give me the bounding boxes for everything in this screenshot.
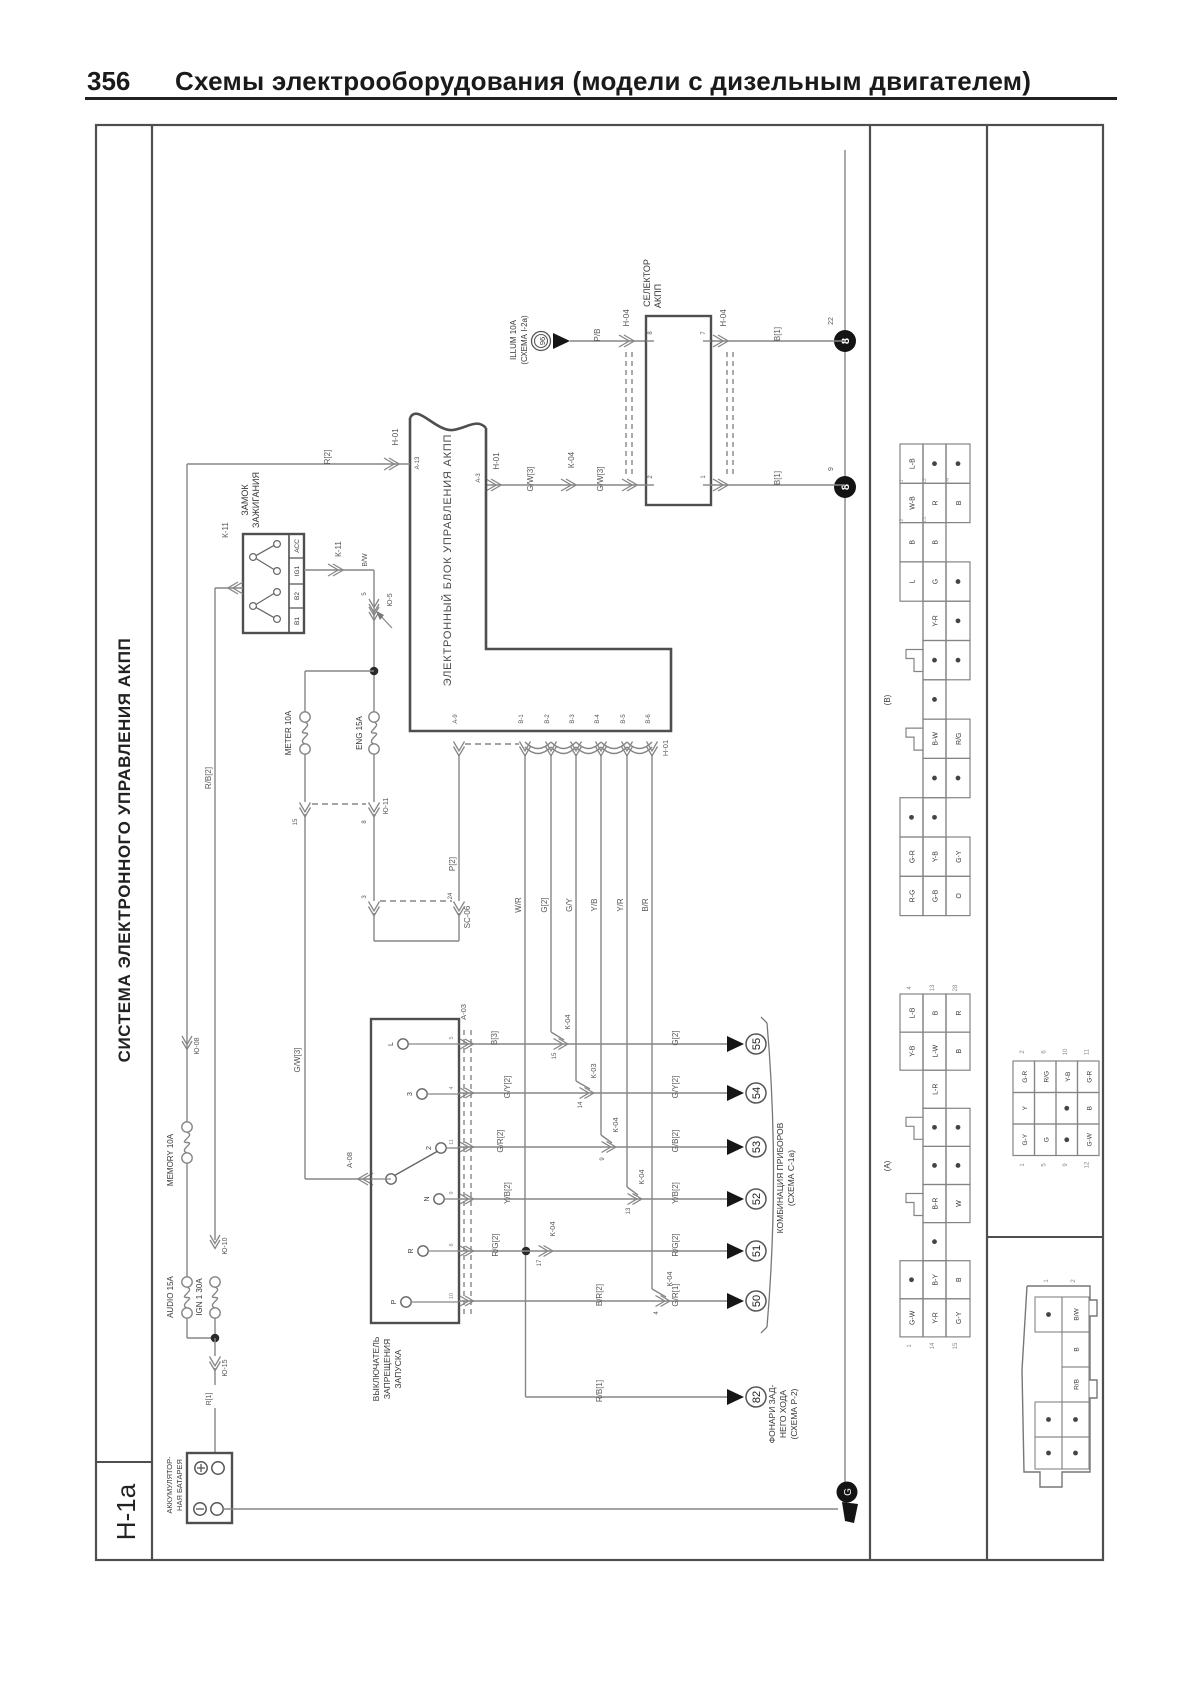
svg-text:G-Y: G-Y	[956, 1311, 963, 1324]
svg-text:ENG 15А: ENG 15А	[355, 715, 364, 749]
svg-text:G/Y[2]: G/Y[2]	[671, 1076, 680, 1099]
svg-text:G-Y: G-Y	[1022, 1133, 1029, 1145]
svg-text:(СХЕМА С-1а): (СХЕМА С-1а)	[786, 1150, 796, 1206]
svg-text:А-03: А-03	[459, 1004, 468, 1020]
svg-text:Н-01: Н-01	[661, 740, 670, 756]
svg-text:MEMORY 10А: MEMORY 10А	[166, 1133, 175, 1186]
svg-text:К-04: К-04	[611, 1117, 620, 1132]
svg-text:В: В	[933, 1010, 940, 1015]
svg-text:G[2]: G[2]	[540, 897, 549, 912]
svg-text:К-11: К-11	[334, 541, 343, 557]
svg-text:R/G[2]: R/G[2]	[491, 1233, 500, 1256]
svg-text:Н-04: Н-04	[622, 309, 631, 327]
svg-text:ВЫКЛЮЧАТЕЛЬ: ВЫКЛЮЧАТЕЛЬ	[371, 1336, 381, 1401]
svg-text:R[2]: R[2]	[323, 450, 332, 465]
svg-text:ФОНАРИ ЗАД-: ФОНАРИ ЗАД-	[767, 1384, 777, 1443]
svg-text:G/R[1]: G/R[1]	[671, 1283, 680, 1306]
svg-text:НЕГО ХОДА: НЕГО ХОДА	[778, 1390, 788, 1438]
svg-text:G-W: G-W	[1086, 1132, 1093, 1146]
svg-text:53: 53	[751, 1141, 763, 1153]
svg-text:15: 15	[552, 1052, 558, 1059]
svg-text:Схемы электрооборудования (мод: Схемы электрооборудования (модели с дизе…	[175, 66, 1031, 96]
svg-text:К-11: К-11	[221, 522, 230, 538]
svg-text:1: 1	[899, 479, 905, 482]
svg-text:Ю-10: Ю-10	[222, 1237, 229, 1254]
svg-text:В-5: В-5	[621, 714, 627, 724]
svg-text:В: В	[910, 540, 917, 545]
svg-text:L-W: L-W	[933, 1044, 940, 1057]
svg-text:В-1: В-1	[519, 714, 525, 724]
svg-text:К-04: К-04	[567, 451, 576, 468]
svg-text:IG1: IG1	[294, 565, 301, 576]
svg-text:В: В	[1086, 1106, 1093, 1110]
svg-text:В-6: В-6	[646, 714, 652, 724]
svg-text:L: L	[388, 1042, 395, 1046]
svg-text:METER 10А: METER 10А	[284, 710, 293, 755]
svg-text:N: N	[424, 1196, 431, 1201]
svg-text:Y: Y	[1022, 1105, 1029, 1110]
svg-text:2: 2	[899, 518, 905, 521]
svg-text:13: 13	[626, 1207, 632, 1214]
svg-text:А-9: А-9	[453, 714, 459, 724]
svg-text:2: 2	[426, 1146, 433, 1150]
svg-text:4: 4	[449, 1086, 455, 1089]
svg-text:В[3]: В[3]	[490, 1031, 499, 1045]
svg-text:G/R[2]: G/R[2]	[496, 1129, 505, 1152]
svg-text:СИСТЕМА ЭЛЕКТРОННОГО УПРАВЛЕНИ: СИСТЕМА ЭЛЕКТРОННОГО УПРАВЛЕНИЯ АКПП	[115, 638, 134, 1063]
svg-text:11: 11	[1085, 1048, 1091, 1055]
svg-text:Y-В: Y-В	[1065, 1072, 1072, 1082]
svg-text:К-04: К-04	[637, 1169, 646, 1184]
svg-text:Y/R: Y/R	[616, 898, 625, 912]
svg-text:96: 96	[538, 337, 547, 345]
svg-text:B/W: B/W	[1074, 1307, 1081, 1320]
svg-text:В/R[2]: В/R[2]	[595, 1284, 604, 1306]
svg-text:ЗАПУСКА: ЗАПУСКА	[393, 1349, 403, 1388]
svg-text:В2: В2	[294, 592, 301, 600]
svg-text:Y-В: Y-В	[910, 1045, 917, 1056]
svg-text:Y/В[2]: Y/В[2]	[503, 1182, 512, 1204]
svg-text:G-R: G-R	[1086, 1070, 1093, 1082]
svg-text:L-B: L-B	[910, 458, 917, 469]
svg-text:50: 50	[751, 1295, 763, 1307]
svg-text:В: В	[956, 1048, 963, 1053]
svg-text:О: О	[956, 893, 963, 899]
svg-text:Н-1а: Н-1а	[111, 1483, 141, 1540]
svg-text:В-2: В-2	[545, 714, 551, 724]
svg-text:R-G: R-G	[910, 890, 917, 903]
svg-text:10: 10	[449, 1293, 455, 1299]
svg-text:В: В	[933, 540, 940, 545]
svg-text:G-R: G-R	[1022, 1070, 1029, 1082]
svg-text:В/R: В/R	[641, 898, 650, 912]
svg-text:356: 356	[87, 66, 130, 96]
svg-text:Ю-08: Ю-08	[194, 1037, 201, 1054]
svg-text:G[2]: G[2]	[671, 1030, 680, 1045]
svg-text:G/Y: G/Y	[565, 897, 574, 911]
svg-text:Р: Р	[391, 1299, 398, 1304]
svg-text:W/R: W/R	[514, 897, 523, 913]
svg-text:L-В: L-В	[910, 1007, 917, 1018]
svg-text:SC-06: SC-06	[463, 905, 472, 928]
svg-text:15: 15	[293, 818, 299, 825]
svg-text:W: W	[956, 1200, 963, 1207]
svg-text:24: 24	[448, 892, 454, 899]
svg-text:G/W[3]: G/W[3]	[596, 467, 605, 492]
svg-text:IGN 1 30А: IGN 1 30А	[195, 1278, 204, 1316]
svg-text:Ю-15: Ю-15	[222, 1359, 229, 1376]
svg-text:А-13: А-13	[415, 456, 421, 469]
svg-text:АСС: АСС	[294, 539, 301, 553]
svg-text:В-Y: В-Y	[933, 1274, 940, 1286]
svg-text:Y-В: Y-В	[933, 851, 940, 862]
svg-text:9: 9	[828, 467, 835, 471]
svg-text:Y/В: Y/В	[590, 899, 599, 912]
svg-text:5: 5	[449, 1036, 455, 1039]
svg-text:L: L	[910, 580, 917, 584]
svg-text:G/В[2]: G/В[2]	[671, 1130, 680, 1153]
svg-text:51: 51	[751, 1245, 763, 1257]
svg-text:12: 12	[1085, 1161, 1091, 1168]
svg-text:11: 11	[449, 1139, 455, 1145]
svg-text:R/В: R/В	[1074, 1379, 1081, 1390]
svg-text:G: G	[1043, 1137, 1050, 1142]
svg-text:КОМБИНАЦИЯ ПРИБОРОВ: КОМБИНАЦИЯ ПРИБОРОВ	[775, 1122, 785, 1233]
svg-text:3: 3	[407, 1092, 414, 1096]
svg-text:В1: В1	[294, 617, 301, 625]
svg-text:G-Y: G-Y	[956, 850, 963, 863]
svg-text:В/W: В/W	[362, 553, 369, 567]
svg-text:G/W[3]: G/W[3]	[526, 467, 535, 492]
svg-text:А-08: А-08	[345, 1152, 354, 1168]
svg-text:В: В	[956, 1277, 963, 1282]
svg-text:Н-01: Н-01	[492, 452, 501, 470]
svg-text:Р/В: Р/В	[593, 329, 602, 342]
svg-text:R/G: R/G	[1043, 1071, 1050, 1083]
svg-text:ЭЛЕКТРОННЫЙ БЛОК УПРАВЛЕНИЯ АК: ЭЛЕКТРОННЫЙ БЛОК УПРАВЛЕНИЯ АКПП	[441, 434, 454, 687]
svg-text:НАЯ БАТАРЕЯ: НАЯ БАТАРЕЯ	[175, 1459, 184, 1511]
svg-text:55: 55	[751, 1038, 763, 1050]
svg-text:G: G	[843, 1488, 854, 1496]
svg-text:8: 8	[449, 1243, 455, 1246]
svg-text:22: 22	[828, 317, 835, 325]
svg-text:Y-R: Y-R	[933, 1312, 940, 1323]
svg-text:G-W: G-W	[910, 1310, 917, 1325]
svg-text:G/Y[2]: G/Y[2]	[503, 1076, 512, 1099]
svg-text:(СХЕМА Р-2): (СХЕМА Р-2)	[789, 1388, 799, 1439]
svg-text:R/В[1]: R/В[1]	[595, 1380, 604, 1402]
svg-text:13: 13	[922, 517, 928, 523]
svg-text:(В): (В)	[883, 694, 892, 705]
svg-text:R[1]: R[1]	[206, 1393, 213, 1406]
svg-text:А-3: А-3	[476, 473, 482, 483]
svg-text:9: 9	[449, 1191, 455, 1194]
svg-text:10: 10	[1063, 1048, 1069, 1055]
svg-text:Ю-5: Ю-5	[387, 593, 394, 606]
svg-text:AUDIO 15А: AUDIO 15А	[166, 1275, 175, 1317]
svg-text:12: 12	[922, 478, 928, 484]
svg-text:ЗАПРЕЩЕНИЯ: ЗАПРЕЩЕНИЯ	[382, 1339, 392, 1399]
svg-text:К-03: К-03	[589, 1063, 598, 1078]
svg-text:R/G: R/G	[956, 733, 963, 745]
svg-text:АККУМУЛЯТОР-: АККУМУЛЯТОР-	[165, 1456, 174, 1514]
svg-text:82: 82	[751, 1391, 763, 1403]
svg-text:14: 14	[578, 1101, 584, 1108]
svg-text:Н-04: Н-04	[719, 309, 728, 327]
svg-text:(А): (А)	[883, 1160, 892, 1171]
svg-text:АКПП: АКПП	[653, 284, 663, 308]
svg-text:G: G	[933, 579, 940, 584]
svg-text:ЗАЖИГАНИЯ: ЗАЖИГАНИЯ	[251, 472, 261, 528]
svg-text:К-04: К-04	[563, 1014, 572, 1029]
svg-text:ILLUM 10А: ILLUM 10А	[509, 319, 518, 360]
svg-text:R: R	[933, 500, 940, 505]
svg-text:W-В: W-В	[910, 496, 917, 510]
svg-text:Y/В[2]: Y/В[2]	[671, 1182, 680, 1204]
svg-text:В[1]: В[1]	[773, 327, 782, 341]
svg-text:В: В	[1074, 1347, 1081, 1351]
svg-text:54: 54	[751, 1087, 763, 1099]
svg-text:R: R	[956, 1011, 963, 1016]
svg-text:14: 14	[930, 1342, 936, 1349]
svg-text:ЗАМОК: ЗАМОК	[240, 484, 250, 516]
svg-text:R: R	[408, 1248, 415, 1253]
svg-text:Ю-11: Ю-11	[383, 798, 390, 815]
svg-text:Р[2]: Р[2]	[448, 857, 457, 871]
svg-text:В-R: В-R	[933, 1198, 940, 1210]
svg-text:В: В	[956, 500, 963, 505]
svg-text:СЕЛЕКТОР: СЕЛЕКТОР	[642, 259, 652, 307]
svg-text:G/W[3]: G/W[3]	[293, 1048, 302, 1073]
svg-text:G-R: G-R	[910, 850, 917, 863]
svg-text:G-В: G-В	[933, 889, 940, 902]
svg-text:В-3: В-3	[570, 714, 576, 724]
svg-text:52: 52	[751, 1193, 763, 1205]
svg-text:15: 15	[953, 1342, 959, 1349]
svg-text:13: 13	[930, 984, 936, 991]
svg-text:17: 17	[537, 1259, 543, 1266]
svg-text:К-04: К-04	[548, 1221, 557, 1236]
svg-text:R/G[2]: R/G[2]	[671, 1233, 680, 1256]
svg-text:(СХЕМА I-2а): (СХЕМА I-2а)	[520, 315, 529, 365]
svg-text:24: 24	[945, 478, 951, 484]
svg-text:Y-R: Y-R	[933, 615, 940, 626]
svg-text:L-R: L-R	[933, 1084, 940, 1095]
svg-text:Н-01: Н-01	[391, 428, 400, 446]
svg-text:В-W: В-W	[933, 732, 940, 746]
svg-text:R/В[2]: R/В[2]	[204, 767, 213, 789]
svg-text:28: 28	[953, 984, 959, 991]
svg-text:В[1]: В[1]	[773, 471, 782, 485]
svg-text:В-4: В-4	[595, 714, 601, 724]
